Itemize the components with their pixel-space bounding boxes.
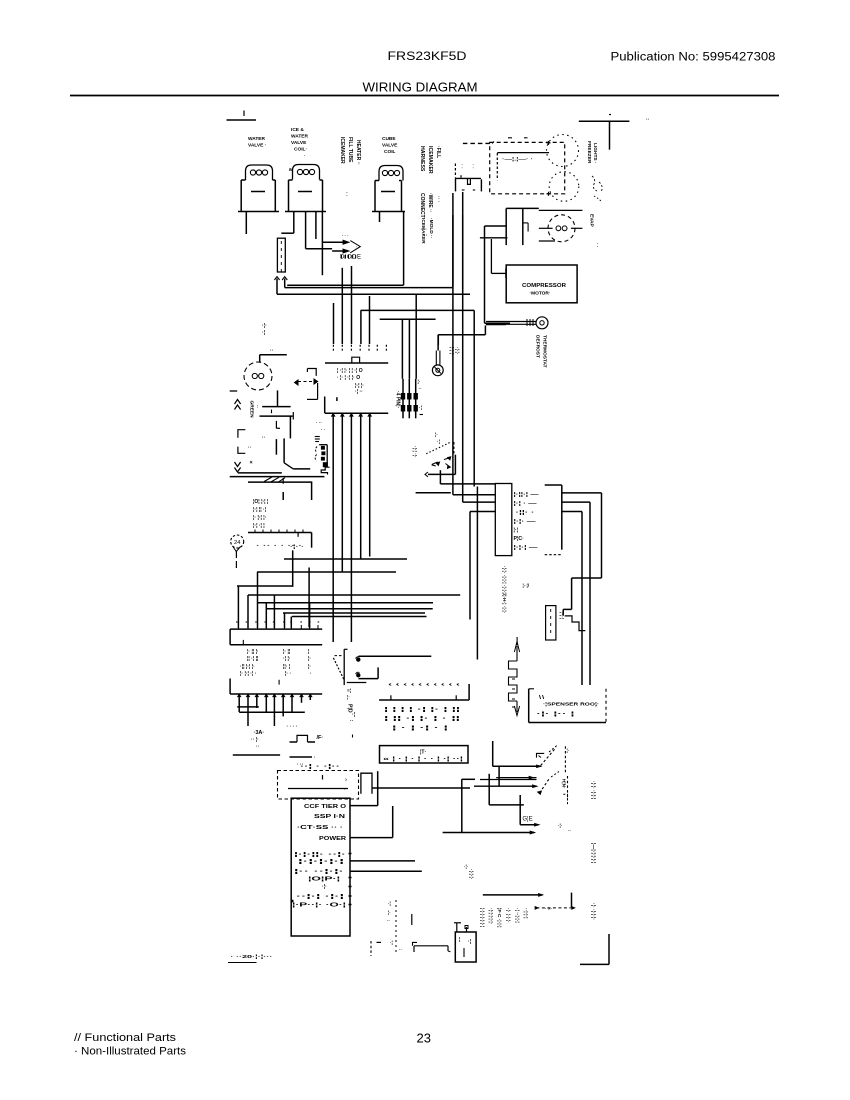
wire long v 474 xyxy=(473,310,475,486)
svg-text:H¦N·: H¦N· xyxy=(561,779,567,789)
comb ticks under diode xyxy=(342,255,356,259)
svg-text:HEATER ··: HEATER ·· xyxy=(355,140,361,165)
vertical label harness 1 xyxy=(419,146,433,174)
wire J2 t5 xyxy=(369,413,371,556)
label above timer xyxy=(297,762,304,768)
svg-text:CONNECT: CONNECT xyxy=(419,193,425,218)
fanout v6 xyxy=(284,613,286,628)
fanout v2 xyxy=(247,595,249,628)
label diode xyxy=(340,255,362,261)
svg-text:·¦·¦· ·¦·¦·¦ ·¦·¦·¦/¦·H·¦ ·¦·¦: ·¦·¦· ·¦·¦·¦ ·¦·¦·¦/¦·H·¦ ·¦·¦· xyxy=(501,566,507,613)
svg-text:· ·: · · xyxy=(594,243,599,248)
svg-text:COMPRESSOR: COMPRESSOR xyxy=(522,283,566,289)
svg-text:DIODE: DIODE xyxy=(340,255,362,261)
wire upper switch feed xyxy=(493,741,542,768)
svg-text:··: ·· xyxy=(350,719,354,725)
svg-text:CUBE: CUBE xyxy=(382,136,396,142)
svg-text:·¦¦ ¦·¦ ¦·: ·¦¦ ¦·¦ ¦· xyxy=(240,664,255,670)
compressor relay posts xyxy=(506,208,528,245)
icemaker plug box xyxy=(455,932,476,962)
svg-text:¦¦· ¦: ¦¦· ¦ xyxy=(283,664,291,670)
label light shield xyxy=(502,157,533,163)
svg-text:·¦: ·¦ xyxy=(352,712,356,718)
icemaker vertical label xyxy=(420,218,434,244)
svg-text:POWER: POWER xyxy=(319,836,346,842)
svg-text:ICEMAKER: ICEMAKER xyxy=(339,137,345,164)
svg-text:¦O¦P·¦: ¦O¦P·¦ xyxy=(308,877,341,883)
svg-text:··¦·¦·¦: ··¦·¦·¦ xyxy=(523,908,529,918)
connector row 1 xyxy=(514,492,540,498)
page header model number xyxy=(388,51,467,63)
board text row 5 xyxy=(294,852,347,858)
svg-text:¦·: ¦· xyxy=(435,432,438,438)
svg-text:··: ·· xyxy=(270,348,274,354)
svg-text:DEFROST: DEFROST xyxy=(535,335,541,358)
freezer light bulb L1 xyxy=(547,135,579,167)
scribble arcs right of lights xyxy=(592,176,602,202)
bus A xyxy=(287,284,403,286)
wire bend 586 xyxy=(237,585,292,587)
svg-text:¦¦ ·¦ ¦¦: ¦¦ ·¦ ¦¦ xyxy=(247,656,259,662)
svg-text:·WIRE ··: ·WIRE ·· xyxy=(427,193,433,213)
chevron break upper xyxy=(235,400,241,410)
icemaker harness connector pins xyxy=(321,446,325,460)
ground double line 2 xyxy=(230,476,325,478)
svg-text:¦ ¦¦ ·¦ ¦· ¦ · ¦¦: ¦ ¦¦ ·¦ ¦· ¦ · ¦¦ xyxy=(384,716,461,722)
mark x xyxy=(250,460,253,466)
PIN block columns xyxy=(403,379,416,419)
wire capacitor down 1 xyxy=(289,416,291,438)
svg-text:¦·: ¦· xyxy=(567,748,570,753)
capacitor C1 lead right xyxy=(292,412,294,420)
svg-text:ICE &: ICE & xyxy=(291,127,304,133)
vertical label evap fan xyxy=(589,214,600,248)
icemaker harness connector arcs xyxy=(315,447,317,462)
dispenser switch wires xyxy=(425,455,495,484)
svg-text:ICEMAKER: ICEMAKER xyxy=(427,146,433,174)
fanout v7 xyxy=(290,617,292,629)
defrost heater arrow down xyxy=(514,701,519,716)
svg-text:WIRING DIAGRAM: WIRING DIAGRAM xyxy=(363,80,478,95)
ADC pin grid row1 xyxy=(384,707,461,713)
wire J2 t4 xyxy=(360,413,362,559)
label fan dots xyxy=(262,323,274,354)
wire fuse out right xyxy=(285,279,453,288)
wire bend 572 xyxy=(257,571,396,573)
resistor R1 arrows xyxy=(274,277,287,280)
wire pin feed 3 xyxy=(415,294,417,379)
icemaker head left edge xyxy=(403,254,405,285)
diode arrow line 1 xyxy=(322,240,349,244)
marks near tube heater jog xyxy=(523,583,530,588)
svg-text:·MOLD ··: ·MOLD ·· xyxy=(428,218,434,238)
svg-text:·4 PIN¦·: ·4 PIN¦· xyxy=(395,391,401,409)
svg-text:·¦·¦· ·¦·¦·¦: ·¦·¦· ·¦·¦·¦ xyxy=(590,781,596,800)
svg-text:¦·: ¦· xyxy=(388,910,391,915)
ADC board bottom row xyxy=(383,757,464,763)
svg-text:·¦ ¦·: ·¦ ¦· xyxy=(283,656,291,662)
svg-text:P¦C·: P¦C· xyxy=(514,536,525,542)
freezer door switch S2 post xyxy=(565,746,569,772)
board text row 7 xyxy=(294,869,345,875)
svg-text:· ·: · · xyxy=(321,427,325,432)
svg-text:··: ·· xyxy=(248,445,252,451)
svg-text:¦· ¦¦: ¦· ¦¦ xyxy=(283,649,291,655)
short wire stub lower xyxy=(411,914,413,925)
wire main feed xyxy=(372,787,470,789)
page header publication number xyxy=(611,52,776,64)
fanout v1 xyxy=(237,586,239,628)
label water valve V1 xyxy=(248,136,266,149)
fanout h3 xyxy=(266,608,432,610)
defrost thermostat bulb T1 wire xyxy=(437,335,439,351)
svg-text:··: ·· xyxy=(255,405,260,408)
connector row 3 xyxy=(516,510,536,516)
svg-text:·¦: ·¦ xyxy=(388,901,391,906)
J2 tooth arrows xyxy=(331,413,371,416)
svg-text:·FILL: ·FILL xyxy=(435,146,441,158)
footer legend functional parts xyxy=(74,1032,177,1044)
svg-text:¦·¦·¦ —: ¦·¦·¦ — xyxy=(514,545,538,551)
cold control base line xyxy=(248,530,312,548)
wire under fuse xyxy=(290,755,317,761)
solenoid coil V3 xyxy=(372,166,405,212)
wire V2 right lead xyxy=(315,212,317,240)
fanout v4 xyxy=(265,603,267,628)
svg-text:·¦·: ·¦· xyxy=(558,823,562,828)
wire hatch drop2 xyxy=(282,492,284,500)
ground line 3 xyxy=(248,481,312,483)
vertical label dispenser switch xyxy=(412,446,418,458)
tube heater body xyxy=(546,606,556,640)
vertical label icemaker fill tube xyxy=(339,137,361,197)
wire lower switch feeds xyxy=(474,776,537,787)
wire V2 mid lead xyxy=(306,212,333,249)
harness label grid row1 xyxy=(247,649,310,655)
svg-text:COIL·: COIL· xyxy=(294,147,307,153)
wire capacitor down 3 xyxy=(275,439,277,455)
svg-text:·: · xyxy=(473,166,475,171)
capacitor C1 plate 1 xyxy=(262,406,290,408)
defrost heater element xyxy=(509,661,518,701)
light housing inner shade xyxy=(497,138,549,180)
icemaker plug tab xyxy=(454,923,468,932)
svg-text:¦·¦· —: ¦·¦· — xyxy=(514,519,537,525)
freezer compartment corner bracket xyxy=(579,115,630,150)
svg-text:¦· ¦¦ ¦·: ¦· ¦¦ ¦· xyxy=(247,649,259,655)
svg-text:¦ ·¦ ¦· ¦ ¦ ·¦ O: ¦ ·¦ ¦· ¦ ¦ ·¦ O xyxy=(337,368,363,374)
svg-text:¦·¦ ¦¦ ·¦: ¦·¦ ¦¦ ·¦ xyxy=(253,507,267,513)
svg-text:·—¦.¦—· ·: ·—¦.¦—· · xyxy=(502,157,533,163)
svg-text:ICEMAKER: ICEMAKER xyxy=(420,218,426,244)
svg-text:·¦: ·¦ xyxy=(419,405,422,411)
ground double line 1 xyxy=(238,472,282,474)
svg-text:¦·¦·¦·: ¦·¦·¦· xyxy=(449,347,455,356)
svg-text:FREEZER: FREEZER xyxy=(586,141,592,164)
svg-text:· · ·: · · · xyxy=(342,233,349,238)
connector J2 bar xyxy=(325,412,388,414)
chevron break lower xyxy=(235,462,241,472)
connector J1 body xyxy=(325,357,388,363)
wire mid drop xyxy=(292,550,294,587)
svg-text:¦· ¦·¦ ·¦ ·: ¦· ¦·¦ ·¦ · xyxy=(240,671,257,677)
svg-text:¦·¦·¦: ¦·¦·¦ xyxy=(559,612,565,619)
freezer fan motor M2 xyxy=(244,362,272,390)
wire pin feed 2 xyxy=(408,319,410,379)
vertical label defrost thermostat xyxy=(535,335,548,368)
svg-text:COIL: COIL xyxy=(384,149,396,155)
svg-text:¦·: ¦· xyxy=(347,695,350,701)
svg-text:¦·¦ · —: ¦·¦ · — xyxy=(514,501,538,507)
svg-text:·¦·¦ ·¦·: ·¦·¦ ·¦· xyxy=(412,446,418,458)
fanout h4 xyxy=(283,612,425,614)
J4 interconnect h2 xyxy=(239,711,305,713)
wire hatch tickA xyxy=(282,478,284,484)
svg-text:·· ¦·: ·· ¦· xyxy=(251,737,259,743)
board text row 6 xyxy=(298,859,346,865)
board text row 9 xyxy=(322,884,327,890)
svg-text:THERMOSTAT: THERMOSTAT xyxy=(542,335,548,368)
svg-text:· Non-Illustrated Parts: · Non-Illustrated Parts xyxy=(74,1046,187,1058)
svg-text:Publication No: 5995427308: Publication No: 5995427308 xyxy=(611,52,776,64)
wire board out 1 xyxy=(350,860,415,862)
svg-text:CCF TIER O: CCF TIER O xyxy=(304,804,346,810)
title rule xyxy=(70,95,779,97)
page title WIRING DIAGRAM xyxy=(363,80,478,95)
wire bend 559 xyxy=(284,558,407,560)
svg-text:·¦·: ·¦· xyxy=(262,323,267,329)
board text row 4 xyxy=(319,836,346,842)
svg-text:/F·: /F· xyxy=(317,735,324,741)
svg-text:¦—¦·¦·¦·¦·¦: ¦—¦·¦·¦·¦·¦ xyxy=(590,843,596,864)
svg-text:·¦: ·¦ xyxy=(262,330,266,336)
wire bend 564 xyxy=(308,568,310,628)
wire hatch drop1 xyxy=(311,482,313,500)
wire V3 left lead xyxy=(379,212,381,223)
wire block in 1b xyxy=(452,193,454,495)
light terminal cross bottom xyxy=(547,192,551,196)
wire icemaker left step xyxy=(413,942,451,952)
svg-text:¦ ¦ ¦ ¦ ·¦ ¦· ¦ ¦¦: ¦ ¦ ¦ ¦ ·¦ ¦· ¦ ¦¦ xyxy=(384,707,461,713)
resistor R1 body xyxy=(277,238,285,272)
label cold control xyxy=(256,543,304,549)
defrost timer dashed box xyxy=(278,771,359,800)
svg-text:‹ ‹ ‹ ‹ ‹ ‹ ‹ ‹ ‹ ‹: ‹ ‹ ‹ ‹ ‹ ‹ ‹ ‹ ‹ ‹ xyxy=(388,682,461,688)
label 3A xyxy=(251,730,264,750)
svg-text:¦·¦ ·¦ ¦: ¦·¦ ·¦ ¦ xyxy=(253,523,265,529)
fanout h1 xyxy=(248,594,460,596)
vertical label tube heater xyxy=(559,612,565,619)
PIN block side marks xyxy=(418,379,424,415)
svg-text:·¦·¦·: ·¦·¦· xyxy=(454,347,460,354)
label defrost line xyxy=(300,764,341,770)
svg-text:··: ·· xyxy=(646,117,650,123)
dispenser switch post xyxy=(453,442,455,455)
bus D xyxy=(380,318,436,320)
freezer door switch S2 step xyxy=(537,753,545,757)
connector J1 pin feet xyxy=(333,345,386,351)
svg-text:FRS23KF5D: FRS23KF5D xyxy=(388,51,467,63)
svg-text:·3A·: ·3A· xyxy=(254,730,265,736)
svg-text:¦·: ¦· xyxy=(418,379,421,385)
icemaker harness connector body xyxy=(323,463,327,467)
vertical label HRN xyxy=(561,779,567,789)
wire to valves xyxy=(443,831,535,834)
svg-text:· ·: · · xyxy=(343,192,349,197)
fanout v3 xyxy=(257,572,259,628)
page number 23 xyxy=(417,1031,431,1046)
svg-text:·¦·¦·¦·: ·¦·¦·¦· xyxy=(468,869,474,879)
wire pin feed 1 xyxy=(401,319,403,379)
door switch S1 bracket xyxy=(307,369,316,376)
diode arrow line 2 xyxy=(332,249,349,253)
wire block in 3 xyxy=(470,511,495,513)
vertical label right column a xyxy=(590,781,596,800)
svg-text:›: › xyxy=(345,778,347,784)
vertical label 4 PIN xyxy=(395,391,401,409)
connector plug P1 cord xyxy=(463,142,494,144)
compressor box xyxy=(506,265,577,303)
svg-text:¦·: ¦· xyxy=(308,664,311,670)
svg-text:VALVE: VALVE xyxy=(291,140,307,146)
vertical label water valve lower xyxy=(468,869,474,879)
capacitor C1 tick xyxy=(271,410,273,414)
board text row 1 xyxy=(304,804,346,810)
defrost timer contents xyxy=(288,775,348,793)
frame tick top-right xyxy=(646,117,650,123)
door switch S1 xyxy=(295,379,318,399)
svg-text:¦·¦: ¦·¦ xyxy=(514,528,519,534)
wire long right 1 xyxy=(309,603,311,628)
selector switch contact 2 xyxy=(356,672,360,677)
svg-text:¦O¦ ¦·¦ ¦: ¦O¦ ¦·¦ ¦ xyxy=(253,499,269,505)
wire switch lower xyxy=(416,492,451,494)
connector row 5 xyxy=(514,528,519,534)
wire 578 jog xyxy=(563,578,601,615)
vertical label defrost heater xyxy=(501,566,507,613)
svg-text:··: ·· xyxy=(262,435,266,441)
dispenser room marks xyxy=(539,695,543,699)
compressor relay wiring xyxy=(480,226,508,323)
svg-text:·¦·¦·¦·¦·¦·: ·¦·¦·¦·¦·¦· xyxy=(488,908,494,924)
connector row 2 xyxy=(514,501,538,507)
fanout h2 xyxy=(258,602,434,604)
board left edge pin xyxy=(291,900,293,903)
icemaker head outer edge xyxy=(462,215,464,289)
vertical label right column b xyxy=(590,843,596,864)
label water valve V3 xyxy=(382,136,398,155)
svg-text:· · · ·: · · · · xyxy=(287,724,298,730)
J4 tooth arrows xyxy=(238,694,312,697)
svg-text:« ¦ · ¦ · ¦ · · ¦ ·¦ ··¦: « ¦ · ¦ · ¦ · · ¦ ·¦ ··¦ xyxy=(383,757,464,763)
svg-text:¦ · ¦ ·¦ · ¦: ¦ · ¦ ·¦ · ¦ xyxy=(392,726,450,732)
selector switch post xyxy=(344,649,347,685)
left dash mark xyxy=(230,390,238,392)
board text row 10 xyxy=(296,894,346,900)
svg-text:· ×·: · ×· xyxy=(545,906,552,912)
control board box xyxy=(291,798,350,936)
svg-text:· ··: · ·· xyxy=(316,420,322,425)
fuse F1 xyxy=(290,735,316,742)
svg-text:··¦·¦ ·¦·¦: ··¦·¦ ·¦·¦ xyxy=(296,894,346,900)
connector plug P1 body xyxy=(455,162,481,191)
bracket lower left xyxy=(238,447,245,454)
svg-text:·¦·: ·¦· xyxy=(464,864,468,869)
selector switch contact 1 xyxy=(356,657,360,662)
wire channel bracket xyxy=(361,773,372,794)
svg-text:¦T·: ¦T· xyxy=(420,750,426,756)
freezer door switch S2 blade xyxy=(541,745,558,766)
PIN block pins xyxy=(401,394,417,412)
bus C xyxy=(361,309,475,311)
connector row 6 xyxy=(514,536,525,542)
connector J3 body xyxy=(230,629,322,645)
svg-text:·¦· ·¦·¦·¦·: ·¦· ·¦·¦·¦· xyxy=(590,903,596,920)
svg-text:WATER: WATER xyxy=(291,134,309,140)
cold control text grid xyxy=(253,499,269,529)
wire V1 lead xyxy=(245,212,247,235)
svg-text:·¦·: ·¦· xyxy=(322,884,327,890)
svg-text:·MOTOR·: ·MOTOR· xyxy=(530,291,551,297)
svg-text:¦· ¦·¦ ¦·: ¦· ¦·¦ ¦· xyxy=(253,515,267,521)
svg-text:¦: ¦ xyxy=(308,649,310,655)
label diode dots xyxy=(421,227,428,239)
label dispenser room xyxy=(536,702,599,718)
freezer light housing dashed box xyxy=(490,142,565,193)
icemaker harness dots xyxy=(316,420,325,432)
svg-text:≡¦: ≡¦ xyxy=(347,688,351,694)
tube heater wires xyxy=(565,616,586,631)
wire comb1 a xyxy=(333,303,335,344)
svg-text:·: · xyxy=(304,153,306,158)
J4 interconnect h1 xyxy=(237,706,259,708)
svg-text:¦·¦·¦¦· ··¦·: ¦·¦·¦¦· ··¦· xyxy=(294,852,347,858)
wire block in 2 xyxy=(463,192,496,502)
wire gte bend xyxy=(520,795,539,826)
svg-text:··: ·· xyxy=(419,387,422,392)
wire comb1 d xyxy=(360,310,362,344)
frame tick top-left xyxy=(227,111,257,121)
selector switch base xyxy=(347,682,367,684)
svg-text:··: ·· xyxy=(568,828,571,833)
svg-text:· ··20·¦·¦···: · ··20·¦·¦··· xyxy=(230,954,272,960)
label switch top xyxy=(435,432,440,445)
dispenser switch contacts xyxy=(432,457,451,469)
wire diode stub xyxy=(321,242,323,275)
connector row 7 xyxy=(514,545,538,551)
svg-text:·¦: ·¦ xyxy=(468,939,472,945)
wire V2 outer lead xyxy=(321,212,323,243)
speckles below switches xyxy=(558,823,571,833)
svg-text:·¦SPENSER ROO¦·: ·¦SPENSER ROO¦· xyxy=(543,702,599,707)
evaporator fan frame bottom xyxy=(539,240,555,242)
dots above fuse xyxy=(287,724,298,730)
svg-text:·¦ ··¦·¦·¦: ·¦ ··¦·¦·¦ xyxy=(514,908,520,923)
tick below J1 xyxy=(336,397,338,401)
svg-text:24: 24 xyxy=(234,540,241,546)
light terminal cross top xyxy=(547,141,551,145)
svg-text:¦: ¦ xyxy=(459,937,461,943)
wire block in 1 xyxy=(453,494,495,496)
speckles lower mid xyxy=(387,900,402,955)
ADC pin grid row3 xyxy=(392,726,450,732)
connector row 4 xyxy=(514,519,537,525)
svg-text:¦F·C ·¦·¦·¦: ¦F·C ·¦·¦·¦ xyxy=(496,908,502,928)
J3 pin dots xyxy=(236,621,319,623)
svg-text:¦⌐¦/: ¦⌐¦/ xyxy=(523,583,530,588)
defrost thermostat bulb T1 xyxy=(432,351,443,376)
wire comb1 b xyxy=(341,268,343,344)
